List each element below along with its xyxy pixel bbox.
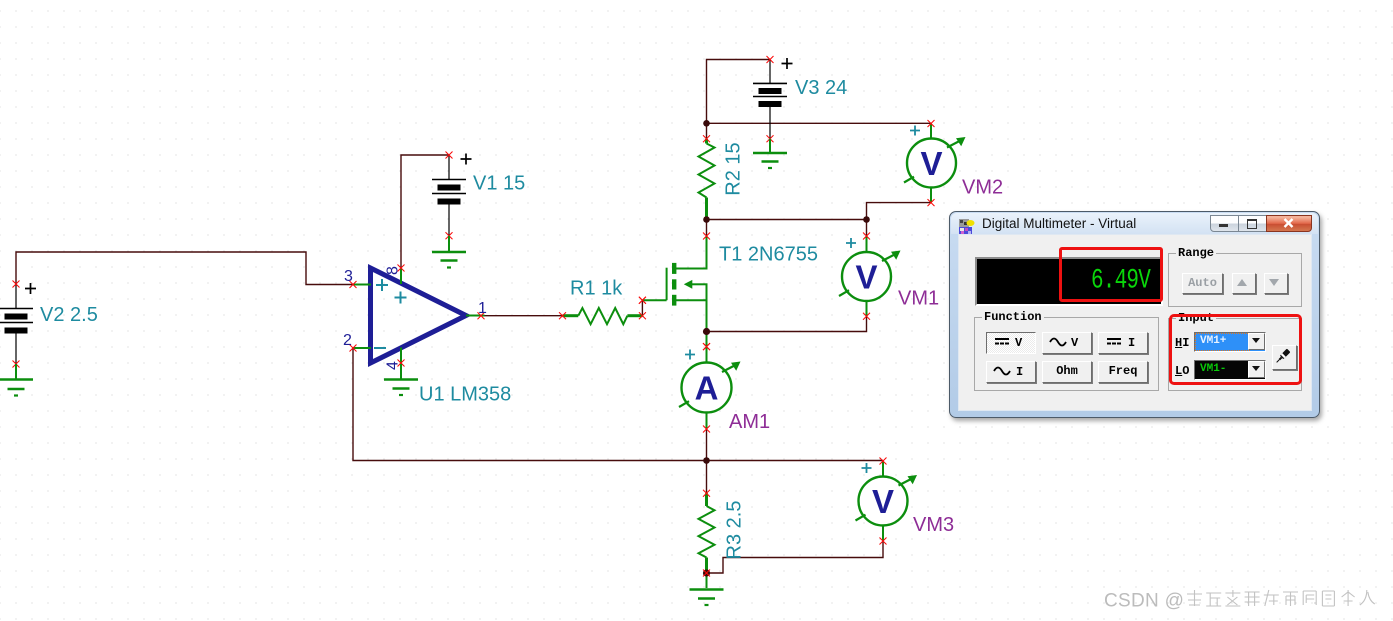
svg-text:I: I	[1128, 336, 1135, 350]
Input group box	[1168, 318, 1302, 391]
svg-text:4: 4	[385, 361, 402, 370]
junction node C	[863, 216, 870, 223]
svg-text:1: 1	[478, 300, 487, 317]
Input label	[1176, 311, 1216, 325]
resistor R2	[699, 139, 715, 220]
wire R2 bottom to VM1 top node C	[707, 219, 867, 221]
svg-text:A: A	[695, 370, 719, 407]
svg-text:I: I	[1016, 365, 1023, 379]
wire VM1 minus to T1 source node D	[707, 316, 867, 331]
resistor R1	[563, 308, 643, 324]
junction node A	[703, 457, 710, 464]
svg-text:VM1: VM1	[898, 288, 939, 310]
voltmeter VM1	[839, 233, 901, 320]
svg-text:V1 15: V1 15	[473, 173, 525, 195]
svg-text:R1 1k: R1 1k	[570, 278, 623, 300]
svg-text:8: 8	[385, 266, 402, 275]
voltmeter VM2	[904, 120, 966, 206]
ground for V1	[432, 236, 466, 268]
wire R3 bottom to VM3 minus	[707, 541, 884, 573]
button DC I	[1098, 332, 1148, 354]
op-amp U1	[350, 265, 485, 367]
wire node D to AM1 plus	[706, 332, 708, 347]
wire node C to VM1 top pin	[866, 220, 868, 237]
button Freq	[1098, 361, 1148, 383]
ground for R3	[690, 573, 724, 605]
range up button	[1232, 273, 1256, 294]
LO combo VM1-	[1194, 360, 1266, 380]
svg-text:V: V	[872, 483, 894, 520]
wire node B to R2 top	[706, 123, 708, 139]
Auto button	[1182, 273, 1223, 294]
highlight red box display	[1059, 247, 1163, 302]
wire node B to VM2 plus	[707, 122, 932, 124]
title bar	[951, 213, 1318, 234]
wire feedback op-amp pin 2 to node A	[353, 348, 883, 461]
wire VM3 plus stub end	[882, 460, 884, 463]
svg-text:V3 24: V3 24	[795, 77, 847, 99]
battery V3	[753, 58, 793, 139]
button DC V pressed	[986, 332, 1036, 354]
button AC I	[986, 361, 1036, 383]
svg-text:R2 15: R2 15	[723, 142, 745, 195]
svg-text:V2 2.5: V2 2.5	[40, 304, 98, 326]
title text	[982, 216, 1136, 231]
svg-text:V: V	[1015, 336, 1023, 350]
svg-text:V: V	[855, 259, 877, 296]
junction node D source	[703, 328, 710, 335]
ground for V3	[753, 139, 787, 168]
wire R1 to T1 gate	[641, 300, 643, 316]
Function group box	[974, 317, 1159, 391]
svg-text:R3 2.5: R3 2.5	[724, 501, 746, 560]
V3 pin markers	[767, 56, 774, 142]
wire V2 plus to op-amp pin 3	[16, 252, 353, 285]
range down button	[1264, 273, 1288, 294]
R3 pin markers	[703, 490, 710, 497]
wire V3 plus to node B	[707, 60, 771, 124]
wire VM2 minus to node C	[867, 203, 932, 220]
display reading 6.49V	[975, 266, 1150, 296]
V1 pin markers	[446, 152, 453, 240]
wire AM1 minus to node A	[706, 429, 708, 461]
battery V2	[0, 283, 36, 364]
button Ohm	[1042, 361, 1092, 383]
svg-text:VM2: VM2	[962, 177, 1003, 199]
R1 pin markers	[559, 297, 646, 320]
highlight red box input	[1169, 314, 1302, 385]
svg-text:AM1: AM1	[729, 411, 770, 433]
wire V1 plus to op-amp pin 8	[401, 155, 449, 268]
ammeter AM1	[679, 343, 741, 432]
ground for U1 pin 4	[384, 364, 418, 395]
window icon	[959, 219, 975, 235]
R2 pin markers	[703, 135, 710, 142]
battery V1	[432, 154, 472, 236]
voltmeter VM3	[856, 458, 918, 545]
junction node B	[703, 120, 710, 127]
svg-text:2: 2	[343, 332, 352, 349]
probe button	[1272, 345, 1297, 370]
svg-text:V: V	[920, 145, 942, 182]
svg-text:VM3: VM3	[913, 514, 954, 536]
caption buttons	[1210, 215, 1311, 230]
ground for V2	[0, 364, 33, 396]
V2 pin markers	[13, 281, 20, 368]
svg-text:V: V	[1071, 336, 1079, 350]
HI combo VM1+	[1194, 332, 1266, 352]
junction R2 bottom	[703, 216, 710, 223]
Function label	[982, 310, 1044, 324]
display bezel	[975, 257, 1163, 306]
wire node A to R3 top	[706, 461, 708, 494]
button AC V	[1042, 332, 1092, 354]
Range label	[1176, 246, 1216, 260]
svg-text:U1 LM358: U1 LM358	[419, 384, 511, 406]
wire op-amp output to R1	[484, 315, 563, 317]
transistor T1	[639, 233, 710, 351]
junction R3 bottom	[703, 569, 710, 576]
svg-text:3: 3	[344, 268, 353, 285]
svg-text:T1 2N6755: T1 2N6755	[719, 244, 818, 266]
close button	[1266, 215, 1312, 232]
maximize button	[1238, 215, 1267, 232]
watermark CSDN	[1104, 589, 1392, 613]
client area	[958, 234, 1312, 411]
resistor R3	[699, 493, 715, 573]
Range group box	[1168, 253, 1302, 307]
wire R2 bottom junction to T1 drain	[706, 220, 708, 237]
LO label	[1175, 364, 1189, 378]
multimeter window	[949, 211, 1320, 418]
minimize button	[1210, 215, 1239, 232]
HI label	[1175, 336, 1189, 350]
